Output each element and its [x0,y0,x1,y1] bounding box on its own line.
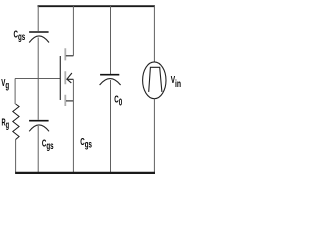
wire source down to bottom rail [72,79,74,172]
label V_g [1,77,9,92]
label C_gs (near source wire) [80,135,92,150]
wire bottom rail [15,172,155,174]
source V_in ellipse [143,62,166,99]
resistor R_g [13,104,19,140]
transistor M1 (MOSFET) gate bar [59,56,61,100]
transistor M1 channel bar segments [64,48,66,106]
wire C_0 top from rail down [110,6,112,75]
wire left vertical from top rail to capacitor C_gs top [37,6,39,31]
wire C_0 bottom down to rail [109,80,111,173]
capacitor C_0 [100,75,121,85]
transistor M1 body arrow [67,73,74,83]
transistor M1 source stub [66,100,73,102]
label V_in [171,73,181,89]
wire from C_gs arc down to lower capacitor [37,37,39,119]
label C_gs (lower-left) [42,137,54,152]
wire right vertical from rail down to source V_in [153,6,155,62]
wire V_g corner down to resistor [14,78,16,104]
capacitor C_gs (lower-left) [29,121,49,132]
node V_g gate wire (horizontal) [15,77,60,79]
wire lower C_gs down to bottom rail [37,126,39,173]
label C_gs (top-left) [14,28,26,43]
wire V_in bottom down to rail [153,99,155,173]
label R_g [1,117,9,131]
source V_in pulse waveform [149,67,162,92]
wire drain up to top rail [72,6,74,56]
wire top rail [38,5,155,7]
label C_0 [114,93,122,108]
wire resistor bottom lead [15,139,17,172]
capacitor C_gs (top-left) [29,32,49,43]
transistor M1 drain stub [66,55,74,57]
